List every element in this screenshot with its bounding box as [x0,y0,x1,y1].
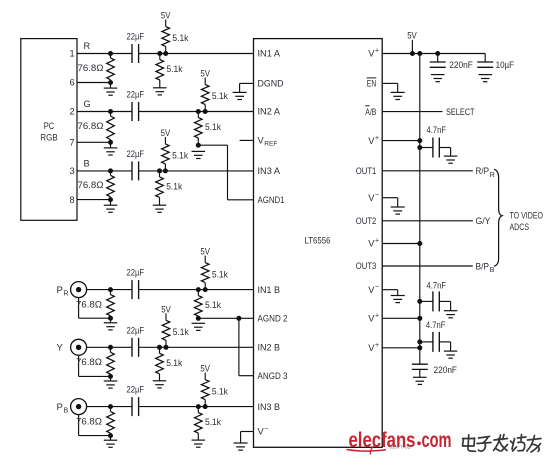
wire pin 6 return [77,82,111,84]
svg-text:TO VIDEO: TO VIDEO [510,211,544,221]
capacitor 10uF (supply bulk) [477,54,514,82]
wire pin 8 return [77,199,111,201]
resistor 76.8ohm (R termination) [78,51,115,85]
ground (below 76.8ohm PB) [104,436,118,448]
svg-text:com: com [422,429,452,452]
wire G divider to AGND1 [198,145,253,200]
pin label IN3 A (left) [258,166,281,176]
svg-text:R: R [64,291,69,298]
svg-text:RGB: RGB [40,132,58,142]
node label R [84,41,91,51]
svg-text:OUT3: OUT3 [356,261,377,271]
svg-text:5.1k: 5.1k [172,33,188,43]
connector jack Y [71,339,87,355]
connector label PR [57,285,69,298]
svg-text:5V: 5V [161,128,171,138]
pin label IN3 B (left) [258,402,281,412]
svg-text:4.7nF: 4.7nF [426,320,446,330]
power 5V (pull-up PB) [200,364,210,380]
pin label IN1 A (left) [258,49,281,59]
svg-text:6: 6 [69,78,74,88]
svg-text:5.1k: 5.1k [205,300,221,310]
svg-text:76.8Ω: 76.8Ω [78,63,104,73]
svg-text:3: 3 [69,166,74,176]
ground (Y divider) [153,381,167,388]
svg-text:22µF: 22µF [127,32,145,42]
pin label ANGD 3 (left) [258,371,288,381]
pin number 8 [69,195,74,205]
power 5V (pull-up Y) [161,304,171,320]
resistor 5.1k pull-up (PB) [201,380,228,410]
svg-text:5.1k: 5.1k [212,269,228,279]
capacitor 4.7nF (bypass 2) [417,281,457,318]
watermark chinese char zi [477,437,491,452]
svg-text:SELECT: SELECT [446,107,475,117]
ground (B divider) [153,205,167,212]
svg-text:OUT1: OUT1 [356,166,377,176]
capacitor 22uF (Y AC coupling) [127,325,145,357]
pin number 7 [69,138,74,148]
svg-text:+: + [375,48,379,55]
pin label V+ (right, y=347.8) [368,342,379,353]
svg-text:IN3 A: IN3 A [258,166,281,176]
ground (below 76.8ohm G) [104,142,118,155]
pin label V- (right, y=197.7) [368,192,379,203]
wire PB shell return [79,415,111,436]
svg-text:220nF: 220nF [434,365,458,375]
pin label AGND 2 (left) [258,314,288,324]
wire V- lead 2 [382,289,398,291]
svg-text:R: R [490,172,495,179]
svg-text:5V: 5V [161,304,171,314]
pin label OUT3 (right, y=266.0) [356,261,377,271]
svg-text:10µF: 10µF [496,60,515,70]
power 5V (pull-up PR) [200,247,210,263]
op-amp U1 LT6556 body [254,39,383,448]
wire V+ bus vertical [419,54,421,365]
ground (DGND) [233,83,247,99]
svg-text:22µF: 22µF [127,325,145,335]
svg-text:5.1k: 5.1k [167,64,183,74]
node G (pin 2 wire) [77,111,254,113]
wire EN lead [382,82,398,84]
ground (PR divider) [192,323,206,330]
svg-text:5V: 5V [200,247,210,257]
svg-text:22µF: 22µF [127,268,145,278]
svg-text:IN1 B: IN1 B [258,285,281,295]
wire pin 7 return [77,141,111,143]
wire V- lead (bottom) [241,431,254,433]
svg-text:5.1k: 5.1k [166,181,182,191]
wire V+ pin 4 [382,316,422,321]
svg-text:5.1k: 5.1k [212,386,228,396]
node R (pin 1 wire) [77,53,254,55]
pin number 2 [69,107,74,117]
ground (G divider) [192,151,206,158]
svg-text:EN: EN [367,79,377,89]
svg-text:2: 2 [69,107,74,117]
pin label V- (left) [258,426,269,437]
wire V- lead 1 [382,197,398,199]
capacitor 22uF (G AC coupling) [127,90,145,122]
svg-text:Y: Y [57,343,64,354]
pin number 1 [69,49,74,59]
svg-text:22µF: 22µF [127,149,145,159]
svg-text:76.8Ω: 76.8Ω [78,180,104,190]
wire A/B to SELECT [382,111,442,113]
pin label A/B (right, y=111.6) [365,106,376,117]
ground (below 76.8ohm Y) [104,376,118,388]
wire OUT1 [382,170,473,172]
svg-text:A/B: A/B [365,107,376,117]
svg-text:+: + [375,238,379,245]
svg-text:R: R [84,41,91,51]
wire V+ pin 5 [382,345,422,350]
resistor 5.1k pull-down (PB) [195,404,222,440]
resistor 5.1k pull-up (B) [162,144,189,174]
resistor 5.1k pull-down (PR) [195,287,222,321]
resistor 5.1k pull-down (B) [156,168,183,205]
svg-text:−: − [375,284,379,291]
wire V+ supply rail [382,53,485,55]
svg-text:PC: PC [44,121,55,131]
pin number 3 [69,166,74,176]
capacitor 4.7nF (bypass 1) [417,125,457,163]
watermark chinese char shao [511,435,527,452]
ground (EN) [391,83,405,99]
node label B [84,159,90,169]
connector label Y [57,343,64,354]
wire to ANGD3 [239,318,254,375]
node label SELECT [446,107,475,117]
svg-text:DGND: DGND [258,79,284,89]
ground (R divider) [153,88,167,95]
source box PC RGB [21,39,77,221]
svg-text:22µF: 22µF [127,385,145,395]
watermark tiny figure number [390,445,411,450]
wire PR divider to AGND2 [198,317,253,319]
svg-text:5V: 5V [161,11,171,21]
pin label AGND1 (left) [258,195,285,205]
connector jack PR [71,282,87,298]
pin label VREF (left) [258,136,278,148]
svg-text:IN3 B: IN3 B [258,402,281,412]
svg-text:P: P [57,402,63,413]
connector label PB [57,402,69,415]
pin label V- (right, y=289.7) [368,284,379,295]
node B (pin 3 wire) [77,170,254,172]
svg-text:+: + [375,313,379,320]
node label TO VIDEO ADCS [510,211,544,233]
svg-text:76.8Ω: 76.8Ω [76,299,102,309]
node label R/PR [476,166,495,179]
svg-text:+: + [375,135,379,142]
power 5V (pull-up R) [161,11,171,27]
pin label V+ (right, y=243.5) [368,238,379,249]
wire V+ pin 3 [382,241,422,246]
junction V+ bus [417,51,422,56]
capacitor 22uF (PB AC coupling) [127,385,145,417]
pin number 6 [69,78,74,88]
node label G/Y [476,216,492,227]
ground (below 76.8ohm R) [104,83,118,96]
node label B/PB [476,261,495,274]
svg-text:AGND 2: AGND 2 [258,314,288,324]
svg-text:4.7nF: 4.7nF [427,281,447,291]
resistor 5.1k pull-down (G) [195,109,222,148]
svg-text:76.8Ω: 76.8Ω [76,357,102,367]
svg-text:B: B [64,408,69,415]
resistor 76.8ohm (PB termination) [76,404,114,438]
svg-text:5V: 5V [407,31,417,41]
resistor 76.8ohm (Y termination) [76,345,114,379]
wire PR shell return [79,298,111,319]
connector jack PB [71,399,87,415]
capacitor 22uF (R AC coupling) [127,32,145,64]
svg-text:76.8Ω: 76.8Ω [76,416,102,426]
pin label OUT1 (right, y=170.8) [356,166,377,176]
svg-text:OUT2: OUT2 [356,216,377,226]
resistor 76.8ohm (B termination) [78,168,115,202]
watermark chinese char dian [463,435,476,452]
svg-text:−: − [264,426,268,433]
watermark chinese char you [527,436,541,453]
wire V+ pin 2 [382,138,422,143]
svg-text:P: P [57,285,63,296]
power 5V (pull-up G) [200,69,210,85]
pin label EN (right, y=83.4) [367,78,377,89]
svg-text:B/P: B/P [476,261,490,272]
wire Y shell return [79,355,111,376]
ground (below 76.8ohm PR) [104,318,118,330]
svg-text:B: B [490,267,495,274]
resistor 5.1k pull-down (R) [156,51,183,88]
pin label IN2 B (left) [258,343,281,353]
svg-text:76.8Ω: 76.8Ω [78,121,104,131]
wire DGND lead [240,82,254,84]
svg-text:AGND1: AGND1 [258,195,285,205]
pin label V+ (right, y=318.3) [368,313,379,324]
wire OUT2 [382,220,473,222]
wire OUT3 [382,265,473,267]
ground (V- 2) [391,290,405,303]
pin label V+ (right, y=53.5) [368,48,379,59]
svg-text:5.1k: 5.1k [205,122,221,132]
svg-text:1: 1 [69,49,74,59]
capacitor 220nF (supply bypass) [430,51,473,82]
svg-text:ANGD 3: ANGD 3 [258,371,288,381]
resistor 5.1k pull-up (R) [162,27,189,57]
watermark elecfans.com [347,429,452,455]
ground (V- bottom) [234,432,248,451]
svg-text:4.7nF: 4.7nF [427,125,447,135]
capacitor 22uF (PR AC coupling) [127,268,145,300]
svg-text:IN2 A: IN2 A [258,107,281,117]
wire Y to IN [87,346,254,348]
resistor 76.8ohm (PR termination) [76,287,114,321]
svg-text:IN1 A: IN1 A [258,49,281,59]
svg-text:G: G [84,99,91,109]
svg-text:8: 8 [69,195,74,205]
pin label IN1 B (left) [258,285,281,295]
brace (outputs group) [494,169,502,266]
wire VREF stub [240,139,254,141]
node label G [84,99,91,109]
resistor 5.1k pull-up (PR) [201,263,228,293]
svg-text:6556 TA01: 6556 TA01 [390,445,411,450]
wire PB to IN [87,406,254,408]
svg-text:REF: REF [264,141,277,148]
pin label OUT2 (right, y=220.8) [356,216,377,226]
capacitor 220nF (bypass bottom) [412,364,457,384]
capacitor 4.7nF (bypass 3) [417,320,457,358]
svg-text:R/P: R/P [476,166,490,177]
svg-text:5.1k: 5.1k [212,91,228,101]
power 5V (pull-up B) [161,128,171,144]
svg-text:5.1k: 5.1k [166,358,182,368]
resistor 5.1k pull-down (Y) [156,345,183,381]
svg-text:IN2 B: IN2 B [258,343,281,353]
svg-text:5V: 5V [200,364,210,374]
svg-text:22µF: 22µF [127,90,145,100]
resistor 5.1k pull-up (G) [201,85,228,115]
wire PR to IN [87,289,254,291]
svg-text:5.1k: 5.1k [205,417,221,427]
svg-text:−: − [375,192,379,199]
svg-text:ADCS: ADCS [510,222,530,232]
pin label V+ (right, y=140.6) [368,135,379,146]
ground (below 76.8ohm B) [104,200,118,213]
ground (V- 1) [391,198,405,214]
resistor 76.8ohm (G termination) [78,109,115,145]
svg-text:5.1k: 5.1k [173,327,189,337]
resistor 5.1k pull-up (Y) [162,320,189,350]
watermark chinese char fa [494,435,508,452]
pin label IN2 A (left) [258,107,281,117]
svg-text:220nF: 220nF [449,60,473,70]
svg-text:LT6556: LT6556 [305,236,331,246]
power 5V (supply) [407,31,417,57]
svg-text:+: + [375,342,379,349]
svg-text:7: 7 [69,138,74,148]
svg-text:5V: 5V [200,69,210,79]
pin label DGND (left) [258,79,284,89]
ground (PB divider) [192,440,206,447]
svg-text:G/Y: G/Y [476,216,492,227]
capacitor 22uF (B AC coupling) [127,149,145,181]
svg-text:B: B [84,159,90,169]
svg-text:5.1k: 5.1k [172,151,188,161]
junction AGND2/ANGD3 [236,316,241,321]
